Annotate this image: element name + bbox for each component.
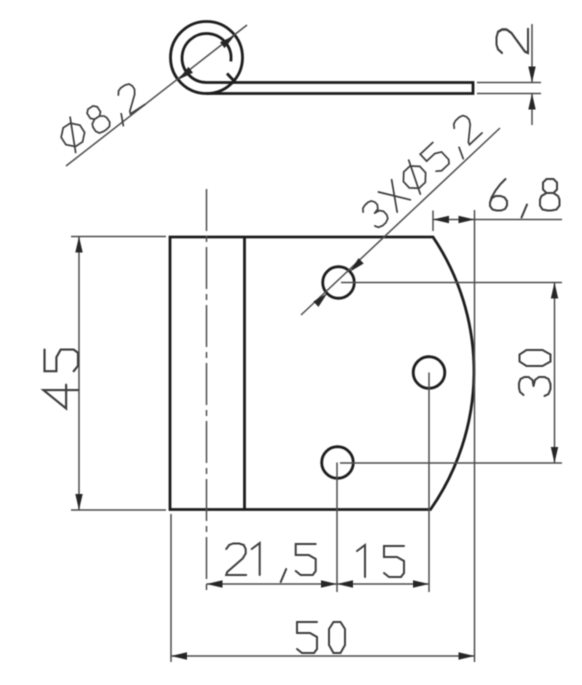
dimension 2 line lower segment [531,94,533,126]
dimension Ø8,2 arrow upper [220,32,237,48]
front view: plate outline with curved right edge [170,237,474,510]
dimension Ø8,2 line [66,25,247,166]
dimension 21,5 / 15 line [207,583,430,585]
dimension 45 extension lines [71,236,166,238]
dimension 50 arrows [171,652,187,659]
side view: sheet end notch [227,74,236,83]
side view: curl inner arc (rolled end) [182,34,231,83]
dimension 15 arrows [337,580,353,587]
hole top [323,267,355,299]
dimension 30 extension lines [341,282,562,284]
dimension 2 arrows [528,67,535,83]
dimension 50 line [171,655,475,657]
dimension 45 line [78,237,80,511]
extension line middle hole down [428,373,430,593]
dimension 30 line [554,283,556,464]
dimension text 3XØ5,2 [358,111,486,234]
dimension text 15 [357,545,404,577]
dimension text 30 [519,350,551,396]
leader 3XØ5,2 line [301,128,500,315]
dimension 6,8 line [433,219,562,221]
dimension text 50 [297,622,345,653]
dimension 2 extension lines [477,82,541,84]
side view: flat strip top line, right end, bottom line [207,83,474,94]
dimension text 6,8 [490,179,560,218]
dimension 2 line upper segment [531,24,533,83]
dimension Ø8,2 arrow lower [176,67,193,83]
dimension 50 extension line left [170,514,172,662]
dimension 45 arrows [75,237,82,253]
hole bottom [322,447,354,479]
right extremity extension line [474,210,476,662]
front view: bend line [243,237,246,510]
dimension text 21,5 [226,543,316,582]
side view: curl outer circle [171,22,243,94]
hole middle [413,357,445,389]
extension line bottom hole down [336,463,338,593]
leader arrows at top hole [347,258,364,274]
dimension text Ø8,2 [55,79,149,157]
dimension text 45 [43,350,78,409]
centerline (dash-dot) [206,189,208,591]
dimension text 2 [497,29,529,53]
dimension 6,8 arrows [433,216,449,223]
dimension 21,5 arrows [207,580,223,587]
dimension 6,8 extension line at corner [432,211,434,232]
dimension 30 arrows [551,283,558,299]
